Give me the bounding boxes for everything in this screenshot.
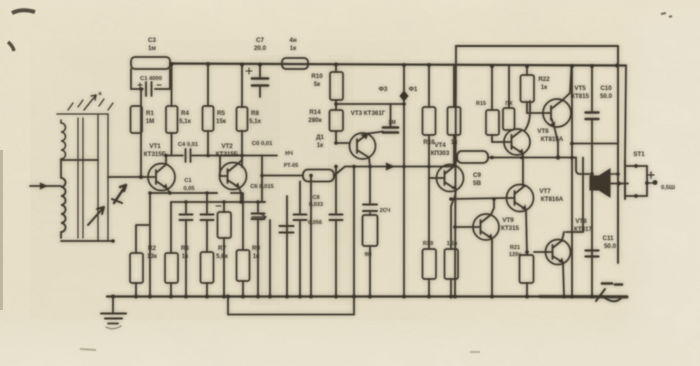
smudge top left <box>12 10 35 13</box>
capacitor near VT3 <box>383 128 398 133</box>
smudge left mid <box>8 42 14 51</box>
jack switch ST1 frame <box>625 166 647 196</box>
wire column x300 <box>299 182 301 297</box>
wire upper rail A <box>456 45 618 47</box>
wire VT2 emitter row <box>171 188 265 203</box>
wire elbows to jack <box>576 158 590 175</box>
wire main top supply bus <box>170 64 626 66</box>
capacitor C5 electrolytic column x224 <box>223 202 225 296</box>
transistor VT4 <box>437 165 464 192</box>
resistor R4b horizontal on bus <box>282 58 308 69</box>
wire column x583 <box>566 158 583 233</box>
wire y157 to right <box>488 157 576 159</box>
capacitor C4 coupling <box>166 155 277 157</box>
wire column x150 <box>149 193 151 296</box>
transformer tap wires <box>61 159 98 161</box>
capacitor column x287 <box>286 196 288 296</box>
transistor VT7 <box>507 185 534 212</box>
wire vertical x456 rail A left leg <box>455 46 456 296</box>
wire VT1 emitter row <box>150 189 217 194</box>
wire VT5 collector up to bus <box>562 66 572 101</box>
wire feedback loop below bus <box>228 297 354 315</box>
wire column x311 <box>310 176 312 297</box>
resistor R19 <box>423 249 437 279</box>
capacitor C1 electrolytic <box>131 69 170 89</box>
wire column x336 lower with cap <box>335 167 337 297</box>
resistor R10 column x336 <box>335 65 337 111</box>
resistor R3 horizontal <box>131 57 170 69</box>
resistor R18 column x454 <box>453 66 455 166</box>
wire mid horizontal y166 <box>262 167 455 176</box>
transistor VT9 lower mid <box>473 214 499 240</box>
speaker BA1 <box>590 176 599 190</box>
transistor VT1 <box>148 164 175 191</box>
transistor VT6 <box>504 129 530 155</box>
wire VT9 emitter down <box>491 239 493 297</box>
capacitor C3 column x186 <box>185 202 187 296</box>
capacitor C2 blob <box>114 185 126 203</box>
wire bias y104 <box>336 103 404 105</box>
resistor R22 <box>527 66 543 113</box>
resistor R9 column x243 <box>231 193 243 296</box>
transistor VT8 <box>546 240 571 265</box>
wire bottom ground bus <box>107 295 627 297</box>
resistor R1 <box>131 106 143 133</box>
transformer top tick marks <box>68 99 113 110</box>
resistor R5 <box>207 64 209 156</box>
jack plus terminal <box>648 172 654 178</box>
wire VT3 emitter up <box>368 132 383 134</box>
wire VT4 collector to pill <box>455 158 457 166</box>
wire VT2 collector up <box>238 155 242 164</box>
transformer core lines <box>78 118 83 238</box>
wire column x262 <box>261 156 263 203</box>
resistor R17 column x509 <box>508 66 510 108</box>
thermistor pill box on y166 <box>303 170 334 182</box>
capacitor column x258 <box>258 202 265 296</box>
wire C1 node down to VT1 base <box>140 89 142 177</box>
wire VT9 collector to VT7 base <box>451 198 507 215</box>
wire below speaker <box>591 190 593 296</box>
wire VT8 emitter down <box>563 263 564 297</box>
resistor R6 <box>170 202 172 296</box>
transistor VT5 <box>543 99 571 127</box>
resistor C14 column x451 <box>451 196 455 296</box>
capacitor C10 column x592 <box>591 66 593 174</box>
input wire with arrow <box>30 185 61 187</box>
resistor R14 <box>335 131 337 143</box>
capacitor C7 electrolytic vertical <box>259 65 261 98</box>
transformer T1 primary winding <box>61 120 66 159</box>
speaker wire to jack <box>610 183 628 185</box>
transistor VT2 <box>220 163 247 190</box>
inductor pill box on y157 <box>457 151 488 163</box>
transformer secondary to VT1 base <box>108 176 148 178</box>
smudge left edge <box>0 150 3 310</box>
resistor R16 column x429 <box>428 65 430 296</box>
wire column x354 <box>353 167 355 297</box>
wire column x572 <box>571 66 573 296</box>
wire into jack from VT6 row <box>572 143 618 145</box>
wire VT4 emitter down <box>455 190 456 197</box>
wire VT3 collector down <box>369 158 370 167</box>
wire VT6 column x522 <box>523 101 530 186</box>
transistor VT3 <box>350 133 376 159</box>
resistor R15 column x492 <box>492 66 504 142</box>
resistor R21 below VT7 <box>526 210 527 297</box>
speck top right <box>661 13 672 17</box>
wire VT2 base drop <box>219 156 221 177</box>
resistor R4 <box>171 64 173 156</box>
ground <box>112 297 114 314</box>
capacitor and resistor R13 column x370 <box>369 167 371 297</box>
transformer adjust arrow top <box>84 95 96 110</box>
capacitor C11 on x592 <box>586 251 599 257</box>
resistor R7 column x207 <box>207 193 217 296</box>
wire vertical x618 rail A right leg <box>617 46 619 263</box>
speck bottom strip <box>80 349 96 350</box>
wire VT1 collector up to C4 node <box>165 156 167 165</box>
arrow on y166 wire <box>386 163 394 170</box>
resistor R8 <box>241 65 243 168</box>
bottom right arrow mark <box>602 284 622 285</box>
arrow on C5 <box>252 214 266 220</box>
transformer core adjust arrow inner <box>88 207 104 225</box>
power tap column x404 <box>403 65 405 296</box>
wire VT5 emitter join x572 <box>554 126 558 158</box>
wire VT8 collector up <box>562 232 564 241</box>
wire right bus corner down <box>625 66 626 162</box>
transformer T1 frame <box>57 114 108 241</box>
resistor R2 <box>136 225 150 296</box>
wire column x270 <box>269 220 271 296</box>
